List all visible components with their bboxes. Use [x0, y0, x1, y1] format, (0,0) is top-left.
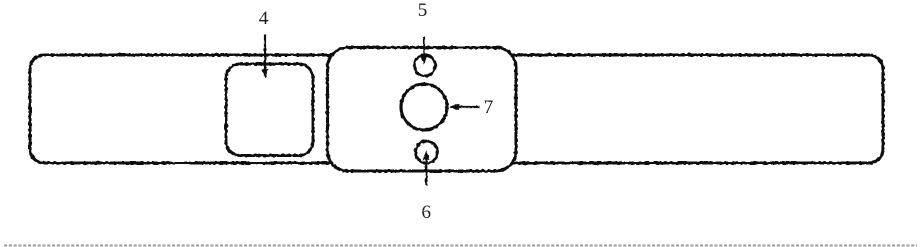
leader line 4	[264, 35, 266, 72]
svg-text:5: 5	[418, 0, 428, 21]
arrowhead 4	[262, 70, 268, 78]
svg-text:6: 6	[422, 202, 432, 223]
wristband body (outer band)	[30, 55, 883, 163]
leader line 6	[425, 159, 427, 185]
svg-text:7: 7	[484, 97, 494, 118]
arrowhead 5	[421, 56, 427, 64]
svg-text:4: 4	[259, 8, 269, 29]
baseline rule at page bottom	[4, 245, 917, 247]
lens 7 (large central circle)	[401, 84, 447, 130]
leader line 7	[458, 106, 480, 108]
leader line 5	[423, 37, 425, 57]
component 4 (small rounded module on band)	[226, 64, 313, 156]
arrowhead 7	[451, 104, 459, 110]
button 6 (small bottom circle)	[416, 141, 438, 163]
arrowhead 6	[423, 152, 429, 160]
central housing module	[328, 48, 517, 172]
button 5 (small top circle)	[414, 55, 435, 76]
